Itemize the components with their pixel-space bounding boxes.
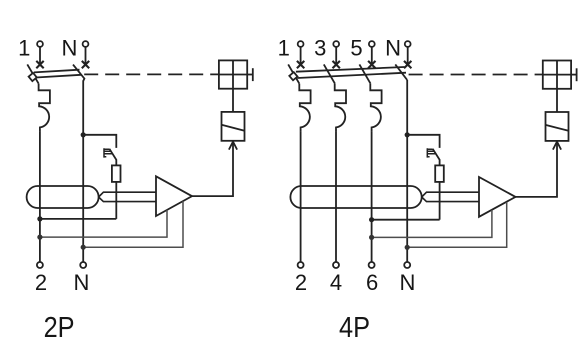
terminal circle 2 (4P load) (298, 262, 304, 268)
op-amp A1 (4P detector) (479, 177, 516, 217)
wire terminal N to contact (4P) (407, 47, 409, 65)
contact X pole 1 (36, 61, 43, 68)
dashed trip linkage (4P) (409, 74, 543, 76)
switch blade pole N (4P) (395, 64, 407, 80)
node: test return on pole 5 (4P) (369, 217, 374, 222)
wire terminal 5 to contact (4P) (371, 47, 373, 65)
svg-text:6: 6 (366, 270, 378, 295)
trip solenoid coil (222, 112, 245, 141)
terminal circle 1 (line side) (37, 41, 43, 47)
mechanism right stub and tick (247, 74, 253, 76)
wire test return (4P) (372, 219, 440, 221)
toroid secondary pair (99, 192, 156, 201)
coil diagonal (222, 125, 245, 131)
mechanical tie bar (4P double line) (296, 67, 405, 72)
svg-text:2P: 2P (44, 312, 75, 344)
current transformer toroid (27, 186, 99, 208)
mechanism right stub and tick (4P) (571, 74, 577, 76)
switch blade pole 1 (4P) (288, 64, 299, 83)
toroid secondary pair (4P) (422, 192, 479, 201)
supply line A (gray) (40, 210, 167, 237)
svg-text:3: 3 (314, 36, 326, 61)
mechanical tie bar (double line) (34, 70, 80, 73)
resistor R (4P test) (435, 165, 444, 182)
contact X pole 3 (4P) (333, 61, 340, 68)
resistor R (test) (112, 165, 121, 182)
svg-text:N: N (74, 270, 90, 295)
svg-text:2: 2 (35, 270, 47, 295)
node: supply B on pole N (4P) (405, 245, 410, 250)
arrow into trip coil (4P) (553, 142, 561, 150)
switch blade pole 1 (27, 64, 38, 83)
terminal circle N (line side) (83, 41, 89, 47)
terminal circle 2 (load side) (37, 262, 43, 268)
wire resistor to return (115, 182, 117, 219)
terminal circle 4 (4P load) (333, 262, 339, 268)
wire test return (40, 218, 116, 220)
arrow into trip coil (229, 142, 237, 150)
wire terminal 1 to contact (39, 47, 41, 65)
node: test tap on N (81, 132, 86, 137)
node: supply A on pole 1 (37, 235, 42, 240)
current transformer toroid (4P) (290, 186, 421, 208)
coil diagonal (4P) (546, 125, 569, 131)
trip solenoid coil (4P) (546, 112, 569, 141)
wire coil to mechanism (4P) (556, 89, 558, 112)
svg-text:5: 5 (350, 36, 362, 61)
wire test branch (4P) (407, 135, 439, 148)
terminal circle 5 (4P line) (369, 41, 375, 47)
trip unit pole 1 (39, 84, 50, 132)
terminal circle 6 (4P load) (369, 262, 375, 268)
wire amp output (192, 142, 233, 196)
trip unit pole 5 (4P) (370, 84, 381, 132)
test pushbutton actuator (104, 148, 113, 157)
node: supply A on pole 5 (4P) (369, 235, 374, 240)
pole 1 wire (39, 131, 41, 262)
svg-text:N: N (61, 36, 77, 61)
trip unit pole 3 (4P) (335, 84, 346, 132)
wire terminal 3 to contact (4P) (335, 47, 337, 65)
supply line A (4P gray) (372, 210, 492, 238)
terminal circle N (4P load) (404, 262, 410, 268)
svg-text:1: 1 (18, 36, 30, 61)
terminal circle N (load side) (80, 262, 86, 268)
svg-text:4: 4 (330, 270, 342, 295)
supply line B (gray) (83, 201, 183, 247)
wire coil to mechanism (232, 89, 234, 112)
pole N wire (82, 81, 84, 262)
wire terminal 1 to contact (4P) (300, 47, 302, 65)
node: test tap on N (4P) (405, 132, 410, 137)
node: test return on pole 1 (37, 216, 42, 221)
handle square on pole-1 blade (29, 73, 37, 81)
wire test branch (83, 135, 116, 148)
svg-text:4P: 4P (339, 312, 370, 344)
terminal circle 1 (4P line) (298, 41, 304, 47)
terminal circle N (4P line) (405, 41, 411, 47)
pole N wire (4P) (406, 80, 408, 262)
contact X pole 1 (4P) (297, 61, 304, 68)
pole 5 wire (4P) (371, 131, 373, 262)
svg-text:N: N (399, 270, 415, 295)
wire resistor to return (4P) (439, 182, 441, 220)
switch blade pole N (73, 65, 84, 81)
switch blade pole 3 (4P) (324, 64, 335, 83)
wire terminal N to contact (85, 47, 87, 65)
node: supply B on pole N (81, 245, 86, 250)
handle square on 4P pole-1 blade (289, 72, 297, 80)
trip unit pole 1 (4P) (299, 84, 310, 132)
mechanism crossed square (219, 60, 247, 88)
pole 3 wire (4P) (335, 131, 337, 262)
supply line B (4P gray) (407, 202, 507, 247)
wire amp output (4P) (516, 142, 558, 197)
op-amp A1 (detector) (156, 176, 192, 216)
test pushbutton blade (109, 149, 116, 166)
contact X pole N (82, 61, 89, 68)
switch blade pole 5 (4P) (359, 64, 370, 83)
contact X pole N (4P) (404, 61, 411, 68)
terminal circle 3 (4P line) (333, 41, 339, 47)
svg-text:N: N (385, 36, 401, 61)
svg-text:2: 2 (295, 270, 307, 295)
pole 1 wire (4P) (300, 131, 302, 262)
contact X pole 5 (4P) (368, 61, 375, 68)
svg-text:1: 1 (278, 36, 290, 61)
dashed trip linkage (84, 73, 219, 75)
test pushbutton blade (4P) (433, 149, 440, 166)
mechanism crossed square (4P) (543, 61, 571, 89)
test pushbutton actuator (4P) (427, 148, 436, 157)
